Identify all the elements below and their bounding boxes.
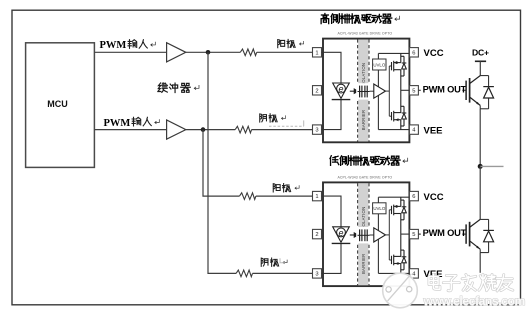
node phase midpoint	[478, 164, 483, 169]
svg-text:PWM OUT: PWM OUT	[423, 228, 467, 238]
label buffer (huan chong qi)	[158, 83, 199, 93]
VEE rail	[378, 129, 409, 131]
wire pin5 U2 to Q2 gate	[418, 233, 466, 235]
wire output node to pin5	[401, 89, 410, 91]
wire vertical net PWM2 to low-side anode	[203, 130, 240, 197]
artifact gray corner mark	[280, 258, 285, 263]
label PWM OUT (high)	[421, 83, 467, 94]
svg-text:e: e	[338, 84, 343, 94]
svg-text:www.elecfans.com: www.elecfans.com	[423, 294, 526, 308]
label cathode (low side)	[261, 258, 287, 266]
title high-side gate driver	[321, 14, 399, 24]
wire Q2 emitter down	[479, 253, 481, 273]
pin 1 (left)	[313, 48, 322, 57]
gate drive net	[386, 90, 390, 92]
pin 3 (left)	[313, 125, 322, 134]
watermark logo circle	[383, 273, 418, 308]
IGBT Q2 (low side) with freewheel diode	[466, 219, 494, 252]
title low-side gate driver	[330, 156, 408, 166]
svg-text:BARRIER: BARRIER	[361, 110, 366, 131]
light arrow	[350, 89, 358, 93]
svg-text:PWM OUT: PWM OUT	[423, 84, 467, 94]
wire midpoint to Q2 collector	[479, 166, 481, 219]
MOSFET M2 (low side, NMOS)	[392, 106, 407, 129]
resistor R4 (cathode, low side)	[236, 270, 252, 277]
IGBT Q1 (high side) with freewheel diode	[466, 76, 494, 109]
UVLO block	[373, 59, 386, 70]
svg-text:VCC: VCC	[424, 48, 444, 59]
svg-text:2: 2	[315, 88, 318, 94]
wire buffer A2 output to R2	[186, 129, 235, 131]
resistor R3 (anode, low side)	[240, 193, 256, 200]
svg-text:5: 5	[412, 88, 415, 94]
node J2 junction dot	[201, 127, 206, 132]
VCC rail	[378, 52, 409, 54]
pin 2 (left)	[313, 86, 322, 95]
svg-text:3: 3	[315, 128, 318, 134]
svg-text:PWM: PWM	[104, 118, 131, 129]
wire pin5 U1 to Q1 gate	[418, 89, 466, 91]
pin 6 (right)	[409, 48, 418, 57]
wire vertical net PWM1 to low-side cathode	[208, 52, 236, 273]
buffer A2	[167, 120, 186, 139]
wire coupling to amp	[370, 90, 374, 92]
wire buffer A1 output to R1	[186, 51, 241, 53]
DC+ supply terminal	[472, 47, 489, 75]
node J1 junction dot	[206, 50, 211, 55]
resistor R1 (anode, high side)	[240, 49, 256, 56]
svg-text:UVLO: UVLO	[373, 62, 386, 67]
amp buffer	[374, 84, 386, 98]
svg-text:VEE: VEE	[424, 125, 443, 136]
wire pin3 to LED cathode	[322, 100, 342, 130]
isolation barrier band	[358, 39, 369, 141]
wire phase output stub	[480, 165, 503, 167]
wire PWM1 from MCU to buffer A1	[94, 51, 166, 53]
optocoupler gate driver U1 (high side)	[313, 32, 444, 143]
wire pin1 to LED anode	[322, 52, 342, 83]
MOSFET M1 (high side, PMOS)	[392, 53, 407, 113]
artifact gray dashed anchor line	[269, 120, 304, 126]
label PWM input 1	[100, 40, 156, 52]
svg-text:6: 6	[412, 50, 415, 56]
label anode (low side)	[273, 184, 299, 192]
svg-text:DC+: DC+	[472, 47, 489, 57]
MCU block U3	[26, 43, 95, 168]
svg-text:MCU: MCU	[47, 99, 68, 109]
wire R3 to pin1 of U2	[256, 195, 313, 197]
resistor R2 (cathode, high side)	[235, 126, 251, 133]
buffer A1	[167, 43, 186, 62]
wire Q1 emitter to midpoint	[479, 109, 481, 167]
svg-text:ACPL-W343 GATE DRIVE OPTO: ACPL-W343 GATE DRIVE OPTO	[338, 32, 393, 36]
svg-text:1: 1	[315, 50, 318, 56]
optocoupler gate driver U2 (low side)	[313, 175, 444, 286]
IC body outline	[323, 39, 409, 143]
label PWM input 2	[104, 117, 160, 129]
wire R1 to pin1 of U1	[257, 51, 313, 53]
LED D_led	[332, 83, 351, 100]
pin 4 (right)	[409, 125, 418, 134]
svg-text:PWM: PWM	[100, 40, 127, 51]
coupling element	[356, 83, 370, 99]
watermark text dianzifashaoyou	[429, 274, 513, 291]
wire R2 to pin3 of U1	[252, 129, 313, 131]
pin 5 (right)	[409, 86, 418, 95]
left rail vertical	[377, 53, 379, 129]
label cathode (high side)	[260, 114, 286, 122]
wire PWM2 from MCU to buffer A2	[94, 129, 166, 131]
label anode (high side)	[278, 39, 304, 47]
wire R4 to pin3 of U2	[253, 272, 313, 274]
label PWM OUT (low)	[421, 227, 467, 238]
